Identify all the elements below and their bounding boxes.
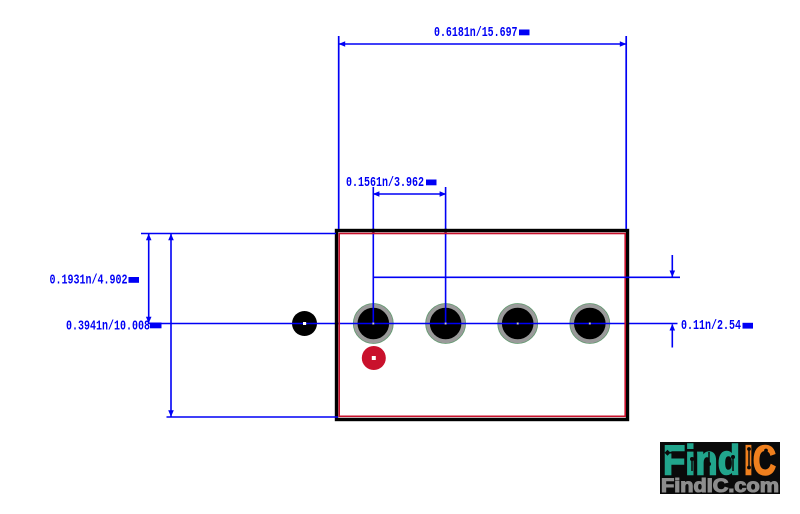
pad 2 (annular ring) bbox=[426, 304, 466, 344]
hole H1 (small black circle outside body) bbox=[292, 311, 317, 336]
wire: left extension line of top dimension bbox=[338, 36, 340, 229]
hole H1 center dot bbox=[303, 322, 306, 324]
svg-text:0.6181n/15.697: 0.6181n/15.697 bbox=[434, 25, 518, 41]
pin 1 marker (red circle) bbox=[362, 346, 386, 370]
wire: top dimension line bbox=[339, 43, 626, 45]
wire: bottom-left connector line bbox=[167, 416, 339, 418]
wire: pad1 extension line bbox=[372, 187, 374, 324]
wire: pad pitch dimension line bbox=[373, 193, 446, 195]
svg-text:0.1931n/4.902: 0.1931n/4.902 bbox=[50, 273, 128, 289]
arrowhead right of top dimension bbox=[620, 41, 627, 47]
svg-text:FindIC.com: FindIC.com bbox=[661, 476, 779, 497]
svg-text:0.1561n/3.962: 0.1561n/3.962 bbox=[346, 175, 424, 191]
border overlap patches (black border drawn over blue lines at crossings) bbox=[372, 229, 375, 232]
svg-text:0.3941n/10.008: 0.3941n/10.008 bbox=[66, 319, 150, 335]
svg-text:0.11n/2.54: 0.11n/2.54 bbox=[681, 318, 741, 334]
component outline rectangle (black) bbox=[337, 231, 628, 420]
wire: left dimension line 1 (0.193in) bbox=[148, 234, 150, 324]
FindIC logo bbox=[660, 437, 780, 498]
arrowhead right of pitch dimension bbox=[440, 191, 447, 197]
arrowhead left of pitch dimension bbox=[373, 191, 380, 197]
wire: left dimension line 2 (0.394in) bbox=[170, 234, 172, 418]
wire: right dimension up arrow bbox=[671, 325, 673, 348]
wire: top-left connector line bbox=[141, 233, 336, 235]
courtyard rectangle (red inner) bbox=[339, 234, 625, 417]
wire: upper reference line (pin1 row offset) bbox=[373, 276, 680, 278]
pad 4 (annular ring) bbox=[570, 304, 610, 344]
wire: right extension line of top dimension bbox=[625, 36, 627, 229]
wire: right dimension down arrow bbox=[671, 255, 673, 277]
pad center dots (drawn over lines) bbox=[372, 323, 374, 325]
wire: horizontal center line through pads bbox=[148, 323, 678, 325]
pad 3 (annular ring) bbox=[498, 304, 538, 344]
wire: pad2 extension line bbox=[445, 187, 447, 324]
arrowhead left of top dimension bbox=[339, 41, 346, 47]
pad 1 (annular ring) bbox=[353, 304, 393, 344]
logo circuit-trace details bbox=[665, 447, 768, 471]
